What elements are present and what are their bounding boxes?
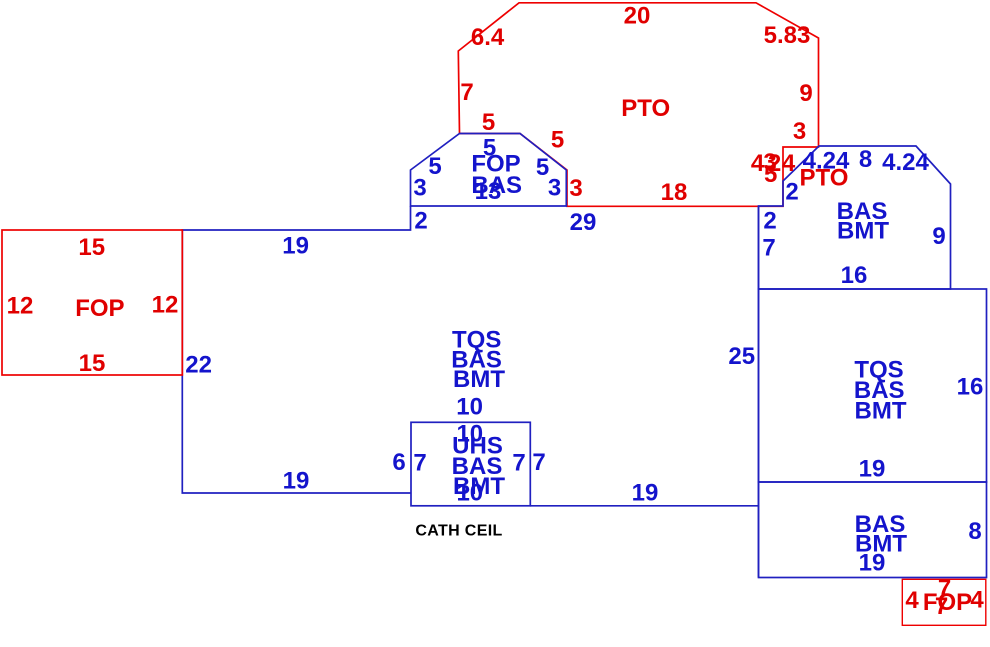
svg-text:12: 12 — [7, 293, 34, 320]
svg-text:BMT: BMT — [453, 366, 505, 393]
svg-text:7: 7 — [460, 79, 473, 106]
svg-text:20: 20 — [624, 3, 651, 30]
svg-text:CATH CEIL: CATH CEIL — [415, 523, 502, 540]
PTO patio outline (red octagon with notch) — [458, 3, 818, 207]
svg-text:8: 8 — [859, 146, 872, 173]
svg-text:16: 16 — [841, 262, 868, 289]
svg-text:19: 19 — [859, 455, 886, 482]
svg-text:3: 3 — [793, 118, 806, 145]
svg-text:3: 3 — [413, 175, 426, 202]
svg-text:PTO: PTO — [621, 95, 670, 122]
svg-text:19: 19 — [283, 468, 310, 495]
svg-text:5: 5 — [428, 153, 441, 180]
svg-text:4: 4 — [782, 150, 796, 177]
svg-text:BMT: BMT — [837, 218, 889, 245]
svg-text:7: 7 — [512, 450, 525, 477]
BAS BMT octagon (top right, blue) — [759, 146, 951, 289]
svg-text:18: 18 — [661, 179, 688, 206]
svg-text:7: 7 — [413, 450, 426, 477]
svg-text:5.83: 5.83 — [764, 22, 811, 49]
svg-text:19: 19 — [282, 232, 309, 259]
svg-text:15: 15 — [78, 234, 105, 261]
svg-text:9: 9 — [799, 80, 812, 107]
svg-text:15: 15 — [79, 350, 106, 377]
svg-text:6: 6 — [392, 449, 405, 476]
TQS BAS BMT rectangle (right, blue) — [759, 289, 987, 482]
svg-text:9: 9 — [932, 223, 945, 250]
svg-text:22: 22 — [185, 351, 212, 378]
svg-text:19: 19 — [632, 479, 659, 506]
FOP BAS hexagon (blue) — [411, 134, 567, 207]
svg-text:5: 5 — [551, 126, 564, 153]
svg-text:12: 12 — [152, 292, 179, 319]
bottom line right of UHS rect — [530, 505, 758, 507]
svg-text:4: 4 — [970, 587, 984, 614]
svg-text:FOP: FOP — [75, 295, 124, 322]
svg-text:2: 2 — [763, 208, 776, 235]
UHS BAS BMT rectangle (blue) — [411, 422, 530, 506]
svg-text:19: 19 — [859, 550, 886, 577]
svg-text:4.24: 4.24 — [803, 148, 850, 175]
svg-text:13: 13 — [475, 178, 502, 205]
svg-text:BMT: BMT — [855, 397, 907, 424]
svg-text:10: 10 — [456, 480, 483, 507]
svg-text:2: 2 — [414, 208, 427, 235]
svg-text:16: 16 — [957, 374, 984, 401]
svg-text:5: 5 — [482, 109, 495, 136]
svg-text:5: 5 — [764, 161, 777, 188]
svg-text:7: 7 — [762, 235, 775, 262]
svg-text:2: 2 — [785, 179, 798, 206]
svg-text:29: 29 — [570, 209, 597, 236]
svg-text:4.24: 4.24 — [882, 149, 929, 176]
svg-text:7: 7 — [532, 449, 545, 476]
main TQS BAS BMT outline (blue polyline) — [182, 206, 410, 493]
left FOP porch rectangle (red) — [2, 230, 182, 375]
svg-text:6.4: 6.4 — [471, 24, 505, 51]
svg-text:25: 25 — [728, 343, 755, 370]
bottom-right FOP porch rectangle (red) — [902, 579, 986, 625]
svg-text:8: 8 — [968, 518, 981, 545]
svg-text:10: 10 — [456, 394, 483, 421]
right main vertical wall — [758, 206, 760, 578]
svg-text:4: 4 — [905, 587, 919, 614]
svg-text:7: 7 — [935, 593, 948, 620]
svg-text:3: 3 — [548, 175, 561, 202]
BAS BMT bottom rectangle (blue) — [759, 482, 987, 578]
svg-text:3: 3 — [569, 175, 582, 202]
